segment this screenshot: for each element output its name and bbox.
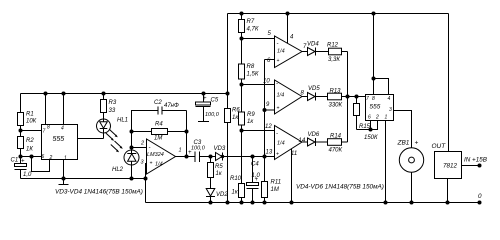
- svg-text:-: -: [276, 132, 278, 138]
- svg-text:1/4: 1/4: [277, 93, 285, 99]
- svg-text:1,0: 1,0: [23, 172, 32, 178]
- wire feedback loop right: [186, 111, 188, 157]
- resistor R10: [230, 176, 245, 198]
- wire LM324 pin3 to ground: [146, 164, 147, 179]
- svg-text:VD4-VD6 1N4148(75В 150мА): VD4-VD6 1N4148(75В 150мА): [296, 184, 384, 191]
- svg-text:C5: C5: [211, 98, 219, 104]
- capacitor C3: [188, 140, 206, 162]
- op-amp U2 LM324: [140, 139, 182, 174]
- svg-text:OUT: OUT: [432, 143, 447, 150]
- resistor R15: [354, 97, 379, 142]
- wire op3 pin11 ground: [291, 148, 293, 203]
- timer 555 U1: [42, 125, 78, 162]
- resistor R8: [239, 64, 259, 79]
- svg-text:11: 11: [291, 151, 297, 157]
- LED HL1: [97, 118, 129, 139]
- svg-text:C1: C1: [11, 158, 19, 164]
- diode VD6: [302, 132, 328, 146]
- svg-text:-: -: [149, 146, 151, 152]
- ground symbol C5: [198, 121, 209, 123]
- svg-text:0: 0: [478, 193, 482, 200]
- svg-text:470К: 470К: [329, 148, 343, 154]
- svg-text:HL2: HL2: [112, 167, 124, 173]
- diode VD3: [214, 146, 226, 161]
- svg-text:R7: R7: [247, 19, 255, 25]
- svg-text:8: 8: [372, 96, 375, 102]
- capacitor C2: [154, 100, 187, 115]
- terminal IN +15V: [464, 157, 487, 168]
- svg-text:2: 2: [375, 115, 379, 121]
- svg-text:330К: 330К: [329, 102, 343, 108]
- svg-text:R5: R5: [215, 164, 223, 170]
- svg-text:VD3-VD4 1N4146(75В 150мА): VD3-VD4 1N4146(75В 150мА): [55, 189, 143, 196]
- svg-text:R2: R2: [26, 138, 34, 144]
- resistor R3: [101, 94, 117, 120]
- svg-text:4,7К: 4,7К: [247, 27, 259, 33]
- svg-text:R12: R12: [327, 43, 339, 49]
- resistor R13: [328, 88, 366, 108]
- wire 555A pin8 supply: [45, 94, 47, 125]
- svg-text:VD2: VD2: [216, 192, 228, 198]
- svg-text:R9: R9: [247, 112, 255, 118]
- junction dots top rail: [240, 12, 376, 16]
- phototransistor HL2: [112, 148, 139, 179]
- svg-text:1,5К: 1,5К: [247, 72, 259, 78]
- svg-text:1/4: 1/4: [155, 162, 163, 168]
- ground symbol left: [59, 179, 69, 185]
- wire +12V left rail: [21, 93, 228, 95]
- wire +12V top rail: [228, 13, 449, 15]
- svg-text:3,3К: 3,3К: [328, 57, 340, 63]
- resistor R5: [208, 157, 224, 189]
- diode VD5: [302, 86, 328, 101]
- svg-text:VD4: VD4: [307, 42, 319, 48]
- junction dots signal column: [263, 108, 267, 112]
- wire feedback loop left: [132, 111, 159, 148]
- wire divider column R7-R10: [241, 14, 243, 203]
- svg-text:1/4: 1/4: [277, 49, 285, 55]
- svg-text:10: 10: [263, 79, 270, 85]
- wire 555B pin1 to ground: [385, 121, 387, 203]
- diode VD4: [302, 42, 329, 56]
- svg-text:ZB1: ZB1: [397, 140, 410, 147]
- wire ground bottom rail: [146, 202, 480, 204]
- node D signal row: [176, 156, 275, 158]
- diode VD2: [206, 189, 228, 203]
- svg-text:33: 33: [109, 108, 116, 114]
- svg-text:8: 8: [47, 125, 50, 131]
- svg-text:2: 2: [49, 155, 53, 161]
- svg-text:R4: R4: [155, 122, 163, 128]
- svg-text:+: +: [277, 58, 280, 64]
- svg-text:1М: 1М: [154, 136, 162, 142]
- op-amp U3.3: [265, 124, 306, 160]
- wire op3 pin12: [242, 130, 275, 132]
- resistor R14: [328, 134, 348, 154]
- svg-text:VD6: VD6: [308, 132, 320, 138]
- svg-text:+: +: [277, 106, 280, 112]
- wire 7812 top feed: [448, 14, 450, 152]
- svg-text:+: +: [415, 140, 419, 147]
- capacitor C4: [247, 157, 261, 203]
- wire 555A pin1 to ground: [63, 160, 65, 179]
- svg-text:12: 12: [265, 124, 272, 130]
- wire 555A pin3 to HL1: [78, 138, 104, 140]
- svg-text:C4: C4: [251, 162, 259, 168]
- svg-text:+: +: [203, 96, 207, 102]
- wire 555A pin7: [21, 130, 42, 132]
- svg-text:-: -: [276, 82, 278, 88]
- light arrows HL1 to HL2: [106, 130, 123, 153]
- svg-text:HL1: HL1: [117, 118, 128, 124]
- svg-text:VD5: VD5: [308, 86, 320, 92]
- svg-text:R11: R11: [271, 180, 282, 186]
- svg-text:LM324: LM324: [147, 152, 164, 158]
- resistor R12: [327, 43, 348, 64]
- svg-text:+: +: [150, 161, 153, 167]
- svg-text:150К: 150К: [364, 135, 378, 141]
- op-amp U3.1: [267, 31, 307, 68]
- svg-text:47нФ: 47нФ: [164, 103, 179, 109]
- svg-text:6: 6: [42, 154, 45, 160]
- svg-text:2: 2: [140, 141, 144, 147]
- svg-text:R10: R10: [230, 176, 242, 182]
- svg-text:4: 4: [61, 126, 64, 132]
- wire 555B supply drop: [374, 14, 389, 95]
- svg-text:3: 3: [389, 107, 392, 113]
- capacitor C1: [11, 157, 33, 179]
- wire 555A pin6: [21, 156, 42, 158]
- resistor R1: [18, 94, 37, 131]
- buzzer ZB1: [397, 140, 424, 203]
- svg-text:1: 1: [385, 115, 388, 121]
- svg-text:1: 1: [179, 148, 182, 154]
- svg-text:7812: 7812: [443, 163, 458, 170]
- wire 555A pin4 supply: [63, 94, 65, 125]
- svg-text:4: 4: [388, 96, 391, 102]
- wire op1 pin4 power: [287, 14, 289, 45]
- wire op2 pin10: [242, 84, 275, 86]
- svg-text:+: +: [21, 159, 25, 165]
- svg-text:7: 7: [43, 129, 46, 135]
- wire summing line: [347, 52, 349, 143]
- resistor R2: [18, 131, 35, 157]
- wire R6 column from top rail: [227, 14, 229, 203]
- svg-text:14: 14: [299, 138, 306, 144]
- svg-text:R13: R13: [330, 88, 342, 94]
- junction dots feedback nodes: [130, 130, 189, 150]
- svg-text:C2: C2: [154, 100, 162, 106]
- terminal 0: [478, 193, 483, 205]
- svg-text:R14: R14: [330, 134, 342, 140]
- resistor R11: [262, 157, 282, 203]
- svg-text:7: 7: [366, 96, 369, 102]
- capacitor C5: [196, 94, 220, 122]
- wire 555B pin3 to ZB1: [394, 111, 412, 149]
- svg-text:+: +: [255, 177, 259, 183]
- junction dots left section: [19, 129, 148, 181]
- svg-text:1: 1: [64, 156, 67, 162]
- resistor R6: [225, 108, 241, 123]
- svg-text:-: -: [277, 42, 279, 48]
- svg-text:6: 6: [368, 115, 371, 121]
- wire to 555B pin7: [348, 96, 366, 98]
- wire 555A pin2 loop: [32, 157, 50, 172]
- svg-text:10К: 10К: [26, 119, 37, 125]
- wire HL2 to LM324 pin2: [132, 147, 147, 149]
- svg-text:IN +15В: IN +15В: [464, 157, 487, 164]
- junction dots node D row: [185, 155, 267, 159]
- resistor R4: [132, 122, 187, 142]
- timer 555 U4: [366, 95, 394, 121]
- svg-text:1К: 1К: [26, 147, 33, 153]
- junction dots 555B area: [346, 77, 376, 132]
- svg-text:VD3: VD3: [214, 146, 226, 152]
- op-amp U3.2: [263, 79, 305, 115]
- svg-text:R1: R1: [26, 112, 34, 118]
- svg-text:555: 555: [370, 104, 381, 111]
- svg-text:+: +: [276, 152, 279, 158]
- svg-text:100,0: 100,0: [191, 146, 206, 152]
- svg-text:100,0: 100,0: [205, 112, 220, 118]
- svg-text:1М: 1М: [271, 187, 279, 193]
- resistor R9: [239, 112, 256, 125]
- regulator 7812: [432, 143, 462, 203]
- resistor R7: [239, 19, 259, 33]
- svg-text:R8: R8: [247, 64, 255, 70]
- wire signal column to + inputs: [265, 60, 275, 157]
- junction dots bottom rail: [209, 201, 450, 205]
- junction dots divider column: [240, 37, 244, 133]
- wire left ground run: [21, 179, 146, 203]
- svg-text:13: 13: [266, 150, 273, 156]
- svg-text:555: 555: [53, 136, 65, 143]
- wire IN terminal: [462, 165, 480, 167]
- wire op1 pin5: [242, 38, 275, 40]
- junction dots left +12V rail: [44, 92, 230, 96]
- svg-text:R3: R3: [109, 100, 117, 106]
- wire R15 to 555B pins 6 2: [357, 121, 378, 130]
- svg-text:1/4: 1/4: [277, 141, 285, 147]
